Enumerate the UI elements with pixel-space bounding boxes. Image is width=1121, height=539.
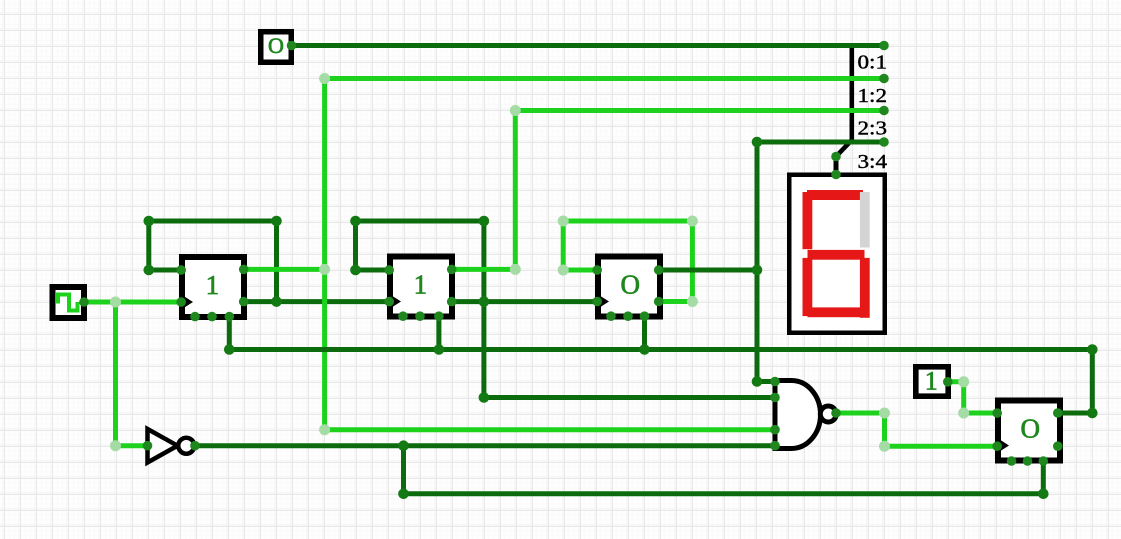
svg-text:O: O bbox=[1020, 414, 1040, 444]
svg-text:O: O bbox=[268, 33, 284, 58]
svg-text:1: 1 bbox=[414, 270, 428, 300]
svg-text:0:1: 0:1 bbox=[858, 52, 888, 74]
svg-text:1: 1 bbox=[925, 366, 938, 395]
svg-text:O: O bbox=[620, 270, 640, 300]
svg-text:1: 1 bbox=[206, 270, 220, 300]
svg-text:2:3: 2:3 bbox=[858, 117, 888, 139]
svg-text:3:4: 3:4 bbox=[858, 151, 888, 173]
svg-text:1:2: 1:2 bbox=[858, 85, 888, 107]
